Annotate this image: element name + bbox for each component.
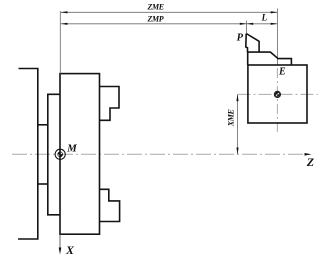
dimension line ZMP	[61, 23, 247, 25]
spindle tick lower	[38, 183, 48, 185]
svg-text:E: E	[278, 67, 286, 78]
extension line at E	[276, 9, 278, 66]
svg-text:XME: XME	[227, 109, 236, 127]
E horizontal centerline	[238, 93, 319, 95]
svg-text:X: X	[65, 243, 75, 257]
ZMP right arrowhead	[240, 23, 247, 25]
chuck back plate	[48, 94, 60, 215]
dimension line XME	[237, 94, 239, 154]
spindle face plate	[18, 69, 38, 240]
svg-text:P: P	[237, 32, 244, 43]
ZMP left arrowhead	[61, 23, 68, 25]
Z axis arrowhead	[305, 153, 312, 156]
tool shank	[248, 52, 292, 65]
XME bottom arrowhead	[236, 148, 238, 155]
svg-text:ZMP: ZMP	[147, 15, 164, 24]
dimension line L	[247, 23, 278, 25]
L right arrowhead	[271, 23, 278, 25]
chuck upper jaw	[100, 87, 119, 121]
svg-text:Z: Z	[306, 155, 315, 169]
X axis arrowhead	[59, 248, 62, 255]
spindle tick upper	[38, 124, 48, 126]
svg-text:ZME: ZME	[147, 3, 164, 12]
L left arrowhead	[247, 23, 254, 25]
X axis line	[59, 234, 61, 248]
chuck lower jaw	[100, 189, 120, 221]
dimension line ZME	[61, 11, 278, 13]
E vertical centerline	[276, 68, 278, 133]
Z axis centerline	[12, 153, 305, 155]
XME top arrowhead	[236, 94, 238, 101]
ZME left arrowhead	[61, 11, 68, 13]
chuck body	[60, 74, 100, 235]
extension line at P	[246, 21, 248, 34]
svg-text:M: M	[66, 142, 77, 154]
tool insert	[246, 34, 259, 53]
extension line at M	[59, 11, 61, 74]
tool holder block	[248, 65, 307, 123]
svg-text:L: L	[261, 12, 268, 22]
ZME right arrowhead	[271, 11, 278, 13]
point E symbol	[274, 91, 280, 97]
point M symbol	[55, 149, 65, 159]
